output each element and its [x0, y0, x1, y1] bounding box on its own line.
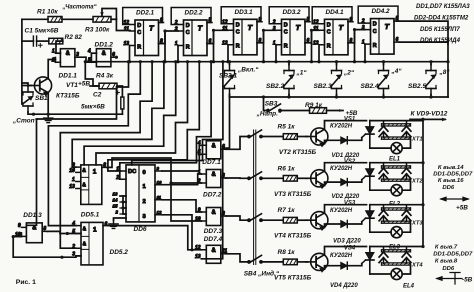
wire DD7.2 out to SB4 contact	[226, 177, 249, 179]
svg-text:R8 1к: R8 1к	[278, 249, 296, 256]
wire DD6 addr stub1	[120, 195, 126, 197]
svg-text:R3 100к: R3 100к	[85, 27, 110, 34]
svg-text:&: &	[83, 226, 87, 232]
svg-text:9: 9	[259, 17, 262, 23]
svg-text:14: 14	[113, 198, 118, 203]
svg-text:2: 2	[115, 175, 119, 181]
node right rail junction 3	[421, 203, 424, 206]
wire SB2.5 top	[430, 62, 432, 65]
ground VT1 emitter	[44, 114, 53, 122]
wire VD3 to VS3 gate	[347, 222, 362, 224]
node right rail junction 1	[421, 118, 424, 121]
wire right rail	[422, 119, 424, 246]
wire DD2.2 out drop to bus	[213, 30, 215, 61]
wire VT4 collector	[325, 205, 367, 213]
svg-text:4: 4	[87, 49, 91, 55]
svg-text:DD5 К155ЛП7: DD5 К155ЛП7	[420, 26, 460, 33]
node nest tap 9	[221, 60, 224, 63]
svg-text:EL4: EL4	[403, 284, 415, 290]
switch SB4 contact 3	[248, 214, 263, 222]
svg-text:5: 5	[396, 16, 399, 22]
wire DD4.1 R pin drop	[318, 45, 320, 62]
wire DD3.2 R pin drop	[275, 45, 277, 62]
svg-text:DD7.4: DD7.4	[204, 236, 223, 243]
diode pair right 4	[402, 248, 411, 264]
node bus junction DD2.2	[212, 60, 215, 63]
svg-text:XT1: XT1	[411, 137, 423, 143]
wire SB4 contact to R5	[261, 136, 283, 138]
node bus junction DD3.2	[310, 60, 313, 63]
wire DD4.2 R pin drop	[364, 44, 366, 62]
lamp EL2	[391, 185, 402, 196]
svg-text:R: R	[137, 44, 141, 50]
wire DD6 ground stub	[114, 218, 127, 220]
wire VT3 emitter to VD2	[325, 182, 341, 185]
svg-text:1: 1	[116, 167, 119, 173]
svg-text:„2“: „2“	[343, 70, 355, 77]
transistor VT4	[306, 212, 328, 231]
wire DD1.2 pin4 up	[91, 52, 96, 54]
diode pair left 4	[379, 248, 388, 264]
wire DD7.1 out to SB4 contact	[226, 137, 249, 150]
svg-text:R: R	[186, 44, 190, 50]
svg-text:&: &	[82, 182, 86, 188]
svg-text:6: 6	[105, 221, 108, 227]
svg-text:VD2 Д220: VD2 Д220	[332, 194, 360, 200]
svg-text:6: 6	[396, 37, 399, 43]
svg-text:„Частота“: „Частота“	[62, 5, 97, 11]
svg-text:C: C	[327, 30, 331, 36]
svg-text:КТ315Б: КТ315Б	[56, 93, 80, 100]
svg-text:C: C	[236, 30, 240, 36]
trigger DD3.2	[269, 7, 310, 55]
svg-text:5: 5	[209, 18, 212, 24]
svg-text:SB2.3: SB2.3	[314, 83, 332, 90]
resistor R5	[283, 134, 297, 140]
node bus junction DD3.1	[262, 60, 265, 63]
node bus junction SB2.1	[228, 60, 231, 63]
wire DD5.2 out6 route	[108, 226, 192, 250]
wire DD1.1 pin2 stub2	[54, 58, 56, 63]
wire DD5.1 out8 route	[107, 158, 202, 221]
trigger DD3.1	[221, 7, 262, 55]
svg-text:D: D	[186, 23, 190, 29]
svg-text:DD7.3: DD7.3	[204, 228, 223, 235]
node button bus junction SB2.2	[287, 95, 290, 98]
wire DD6 addr stub2	[123, 201, 126, 203]
wire left feedback vertical	[13, 237, 76, 258]
wire VD2 to VS2 gate	[347, 180, 362, 182]
svg-text:EL1: EL1	[389, 157, 401, 163]
arrow K VD9-VD12	[442, 118, 447, 122]
diode VD3	[341, 220, 348, 227]
diode VD1	[341, 137, 348, 144]
svg-text:DD7.2: DD7.2	[203, 192, 222, 199]
transistor VT3	[306, 170, 328, 189]
wire nest line 7	[108, 62, 199, 171]
svg-text:„Вкл.“: „Вкл.“	[237, 67, 259, 74]
connector bar bottom XT1	[382, 137, 411, 139]
wire DD6 out3 to DD7.4	[162, 215, 201, 250]
node bus junction DD2.2 R	[176, 60, 179, 63]
wire VT3 collector	[325, 163, 367, 171]
node nest tap 6	[186, 60, 189, 63]
node button bus junction SB2.5	[429, 95, 432, 98]
svg-text:11: 11	[124, 27, 129, 33]
node button bus junction SB2.4	[382, 95, 385, 98]
wire SB1 bottom to stop row	[28, 112, 122, 114]
thyristor VS1	[362, 121, 374, 149]
svg-text:5мк×6В: 5мк×6В	[81, 104, 105, 111]
wire DD1.2 pin join	[90, 53, 92, 62]
svg-text:0: 0	[143, 170, 146, 176]
svg-text:1: 1	[93, 226, 97, 233]
push-button SB2.3	[331, 65, 342, 95]
svg-text:2: 2	[51, 58, 55, 64]
wire DD7.3 out to SB4 contact	[226, 216, 249, 220]
arrow +5V right	[441, 197, 468, 200]
diode pair right 3	[402, 206, 411, 222]
wire SB3 to R9	[280, 110, 310, 112]
svg-text:11: 11	[157, 195, 162, 200]
node nest tap 4	[162, 60, 165, 63]
node feedback junction 2	[60, 256, 63, 259]
svg-text:„Стоп“: „Стоп“	[12, 118, 39, 125]
node bus junction DD3.2 R	[274, 60, 277, 63]
push-button SB2.2	[284, 65, 295, 95]
wire DD1.2 out to C column	[115, 56, 116, 58]
svg-text:1: 1	[72, 177, 75, 183]
switch SB3	[267, 104, 282, 112]
lamp EL4	[391, 268, 402, 279]
svg-text:R: R	[373, 43, 377, 49]
wire left feedback	[13, 236, 21, 238]
wire DD4.2 Q1 stub wire	[399, 21, 448, 44]
svg-text:13: 13	[69, 184, 75, 190]
wire VS4 cathode to lamp	[370, 273, 391, 275]
wire left rail	[21, 19, 23, 104]
wire VT2 collector	[325, 121, 367, 130]
svg-text:VD1 Д220: VD1 Д220	[332, 153, 360, 159]
wire R3 wiper	[102, 9, 116, 20]
wire SB4 contact to R7	[261, 219, 283, 221]
svg-text:DD7.1: DD7.1	[202, 159, 221, 166]
resistor R8	[283, 259, 297, 265]
svg-text:„1“: „1“	[296, 70, 308, 77]
node nest tap 8	[210, 60, 213, 63]
svg-text:1: 1	[52, 49, 55, 55]
svg-text:9: 9	[350, 17, 353, 23]
node SB3 bus tap	[262, 95, 265, 98]
svg-text:Рис. 1: Рис. 1	[16, 279, 36, 286]
svg-text:К VD9-VD12: К VD9-VD12	[411, 111, 448, 118]
connector bar bottom XT3	[382, 221, 411, 223]
svg-text:DD6: DD6	[442, 266, 455, 272]
svg-text:DD6: DD6	[134, 226, 147, 233]
wire R1 to R3	[62, 18, 93, 20]
svg-text:1: 1	[93, 168, 97, 175]
wire SB1 top	[22, 83, 28, 86]
svg-text:-5В: -5В	[462, 277, 473, 284]
node bus junction SB2.2	[287, 60, 290, 63]
trigger DD4.1	[312, 7, 353, 55]
wire SB2.4 top	[383, 62, 385, 65]
diode VD4	[341, 262, 348, 269]
node DD1.2 out junction	[115, 56, 118, 59]
svg-text:К выв.7: К выв.7	[435, 244, 458, 250]
svg-text:VD3 Д220: VD3 Д220	[333, 239, 361, 245]
diode pair left 2	[379, 164, 388, 180]
svg-text:2: 2	[361, 19, 365, 25]
switch SB4 contact 1	[248, 130, 263, 138]
svg-text:XT3: XT3	[411, 221, 423, 227]
svg-text:КУ202Н: КУ202Н	[330, 166, 353, 172]
svg-text:„4“: „4“	[391, 68, 403, 75]
svg-text:VS4: VS4	[344, 246, 356, 252]
wire nest line 5	[84, 62, 176, 165]
wire VD1 to VS1 gate	[347, 138, 362, 141]
wire SB3 feed	[264, 97, 269, 111]
wire DD5.2 pin5 stub	[76, 233, 81, 235]
wire SB2.4 bottom	[383, 95, 385, 98]
decoder DD6	[113, 165, 163, 222]
thyristor VS2	[362, 163, 374, 191]
svg-text:9: 9	[18, 223, 21, 229]
wire rail 1	[370, 120, 423, 122]
lamp EL1	[391, 143, 402, 154]
node bus left end	[84, 60, 87, 63]
node bus junction SB2.5	[429, 60, 432, 63]
node button bus junction SB2.3	[335, 95, 338, 98]
svg-text:DD1-DD5,DD7: DD1-DD5,DD7	[433, 172, 473, 178]
wire R8 to VT5 base	[297, 261, 307, 263]
svg-text:DD5.2: DD5.2	[110, 249, 129, 256]
wire rail 4	[370, 246, 423, 248]
svg-text:SB1: SB1	[35, 95, 48, 102]
svg-text:10: 10	[157, 180, 162, 185]
node emitter ground junction	[47, 113, 50, 116]
svg-text:5: 5	[307, 17, 310, 23]
svg-text:К выв.8: К выв.8	[435, 258, 458, 264]
resistor R4	[99, 83, 117, 89]
node bus junction DD3.1 R	[226, 60, 229, 63]
switch SB4 link	[254, 130, 256, 265]
wire nest line 1	[26, 62, 128, 226]
node K VD9 junction	[421, 118, 424, 121]
svg-text:&: &	[83, 241, 87, 247]
svg-text:13: 13	[313, 40, 319, 46]
svg-text:2: 2	[143, 199, 146, 205]
wire C2 bottom	[121, 109, 123, 114]
connector bar top XT3	[382, 208, 411, 210]
node nest tap 5	[174, 60, 177, 63]
diode pair left 1	[379, 122, 388, 138]
wire DD3.2 out to DD4.1 C	[305, 30, 319, 43]
svg-text:8: 8	[103, 162, 106, 168]
svg-text:C1 5мк×6В: C1 5мк×6В	[25, 28, 59, 35]
gate DD1.2	[87, 49, 116, 67]
trigger DD2.1	[123, 8, 164, 56]
svg-text:DD2.1: DD2.1	[136, 10, 155, 17]
wire DD1.3 out to DD5.2 pin5	[47, 231, 76, 233]
transistor VT1	[29, 77, 51, 96]
resistor R6	[283, 176, 297, 182]
wire VS3 cathode to lamp	[370, 231, 391, 233]
wire top rail	[22, 18, 48, 20]
gate DD1.1	[51, 49, 80, 67]
svg-text:9: 9	[160, 18, 163, 24]
node DD1.3 out junction	[66, 232, 69, 235]
wire VS1 cathode to lamp	[370, 147, 391, 149]
svg-text:SB2.2: SB2.2	[266, 83, 284, 90]
wire DD1.1 pin1 stub	[56, 52, 60, 54]
svg-text:DD2-DD4 К155ТМ2: DD2-DD4 К155ТМ2	[414, 15, 469, 22]
svg-text:+5В: +5В	[456, 205, 468, 212]
node DD2.1 coupling junction	[163, 29, 166, 32]
ground DD6	[109, 220, 118, 228]
gate DD5.1	[69, 162, 107, 204]
svg-text:SB4 „Инд.“: SB4 „Инд.“	[244, 270, 280, 278]
wire nest line 4	[72, 62, 164, 167]
svg-text:13: 13	[195, 254, 201, 260]
diode VD2	[341, 179, 348, 186]
svg-text:D: D	[373, 22, 377, 28]
potentiometer R3	[93, 17, 111, 23]
svg-text:C: C	[186, 30, 190, 36]
svg-text:„8“: „8“	[439, 69, 451, 76]
svg-text:VD4 Д220: VD4 Д220	[330, 283, 358, 289]
lamp EL3	[391, 227, 402, 238]
svg-text:DD4.1: DD4.1	[326, 9, 345, 16]
svg-text:VT5 КТ315Б: VT5 КТ315Б	[274, 274, 312, 281]
wire DD2.2 R pin drop	[177, 46, 179, 62]
gate DD7.3	[195, 207, 226, 225]
wire DD6 out2 to DD7.3	[162, 200, 201, 212]
node DD6 addr j2	[121, 206, 124, 209]
node DD6 addr j1	[121, 200, 124, 203]
wire button bus	[230, 96, 449, 98]
thyristor VS4	[362, 247, 374, 275]
thyristor VS3	[362, 205, 374, 233]
svg-text:VS2: VS2	[344, 159, 356, 165]
connector bar bottom XT2	[382, 179, 411, 181]
svg-text:4: 4	[71, 221, 75, 227]
wire lamp to bar 4	[402, 265, 410, 274]
node DD3.1 coupling junction	[262, 29, 265, 32]
wire DD2.1 out to DD2.2 C	[159, 31, 179, 44]
node bus junction DD2.1 R	[128, 60, 131, 63]
wire VT1 emitter down	[47, 93, 49, 115]
wire DD2.2 out to DD3.1 C	[207, 30, 228, 43]
node bus junction DD4.1	[353, 60, 356, 63]
svg-text:DD1,DD7 К155ЛА3: DD1,DD7 К155ЛА3	[416, 3, 470, 10]
wire C1 row left	[22, 40, 34, 42]
svg-text:КУ202Н: КУ202Н	[330, 123, 353, 129]
resistor R1	[48, 17, 62, 23]
wire rail 2	[370, 162, 423, 164]
connector bar top XT2	[382, 166, 411, 168]
wire DD4.1 out drop to bus	[354, 30, 356, 62]
wire VT1 collector	[48, 60, 55, 79]
svg-text:DD2.2: DD2.2	[185, 10, 204, 17]
node bus junction DD4.2 R	[363, 60, 366, 63]
wire branch DD7.1 pin5	[199, 153, 201, 155]
svg-text:12: 12	[157, 210, 162, 215]
wire R9 to +5V	[327, 110, 344, 112]
svg-text:13: 13	[113, 192, 118, 197]
wire DD2.1 R pin drop	[129, 46, 131, 62]
switch SB4 contact 4	[248, 255, 263, 263]
wire DD3.2 out drop to bus	[311, 30, 313, 61]
label +5V R9 arrow	[339, 109, 343, 112]
svg-text:SB2.5: SB2.5	[408, 83, 426, 90]
node out0 branch	[198, 153, 201, 156]
node nest tap 2	[139, 60, 142, 63]
connector bar top XT4	[382, 250, 411, 252]
svg-text:VS1: VS1	[344, 117, 356, 123]
wire +5V to R4	[90, 85, 99, 87]
wire K VD9-VD12 line	[410, 118, 445, 120]
wire VT5 emitter to VD4	[325, 266, 341, 269]
svg-text:К выв.14: К выв.14	[438, 165, 464, 171]
wire SB2.1 bottom	[229, 95, 231, 98]
svg-text:&: &	[82, 168, 86, 174]
trigger DD2.2	[171, 8, 212, 56]
node nest tap 3	[151, 60, 154, 63]
svg-text:VT2 КТ315Б: VT2 КТ315Б	[279, 149, 317, 156]
svg-text:2: 2	[174, 20, 178, 26]
wire DD6 addr stub3	[123, 207, 126, 209]
node stop row junction	[32, 113, 35, 116]
svg-text:2: 2	[272, 19, 276, 25]
svg-text:КУ202Н: КУ202Н	[330, 208, 353, 214]
wire lamp to bar 2	[402, 181, 410, 190]
node bus junction SB2.3	[335, 60, 338, 63]
wire reset bus	[85, 61, 448, 63]
wire VT1 base	[22, 85, 31, 87]
svg-text:12: 12	[123, 20, 129, 26]
wire DD2.1 out drop to bus	[164, 31, 166, 62]
node nest tap 1	[127, 60, 130, 63]
svg-text:8: 8	[222, 211, 225, 217]
wire VD4 to VS4 gate	[347, 264, 362, 266]
svg-text:R1 10к: R1 10к	[37, 9, 58, 16]
wire DD3.1 out drop to bus	[263, 30, 265, 61]
wire DD4.2 out to right rail	[399, 42, 448, 97]
svg-text:DD4.2: DD4.2	[372, 8, 391, 15]
svg-text:DD3.1: DD3.1	[235, 9, 254, 16]
svg-text:DD5.1: DD5.1	[81, 212, 100, 219]
node right rail junction 2	[421, 161, 424, 164]
wire lamp to bar 1	[402, 139, 410, 148]
svg-text:2: 2	[71, 244, 75, 250]
svg-text:SB2.4: SB2.4	[361, 83, 379, 90]
wire SB2.1 top	[229, 62, 231, 65]
wire DD3.1 out to DD3.2 C	[257, 30, 276, 43]
svg-text:R5 1к: R5 1к	[278, 124, 296, 131]
svg-text:C: C	[137, 30, 141, 36]
svg-text:R4 3к: R4 3к	[96, 73, 114, 80]
svg-text:12: 12	[222, 19, 228, 25]
node DD3.2 coupling junction	[310, 29, 313, 32]
svg-text:DD6 К155ИД4: DD6 К155ИД4	[420, 37, 461, 44]
svg-text:R: R	[236, 44, 240, 50]
wire DD6 out1 to DD7.2	[162, 174, 201, 185]
node right rail bus junction	[446, 60, 449, 63]
connector bar bottom XT4	[382, 263, 411, 265]
resistor R2	[49, 38, 63, 44]
svg-text:XT2: XT2	[411, 179, 423, 185]
